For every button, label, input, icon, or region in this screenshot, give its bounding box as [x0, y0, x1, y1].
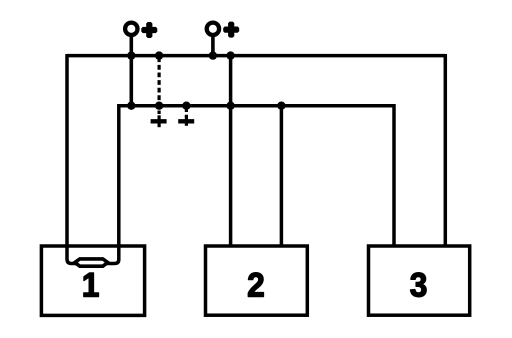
terminal T2: circle: [207, 23, 219, 35]
wire: drop from second bus into unit 1: [108, 104, 119, 264]
terminal T2: plus sign: [223, 22, 239, 38]
ground symbol G2: [178, 116, 194, 126]
wire: positive bus drop to unit 3 right pin: [444, 54, 448, 247]
fusible link inside unit 1: [75, 259, 108, 266]
svg-text:3: 3: [410, 266, 428, 305]
ground symbol G1: [151, 115, 167, 127]
wire: second bus drop to unit 3 left pin: [392, 104, 396, 247]
dashed wire: ground drop from second bus: [185, 107, 188, 117]
wire: second bus (lower horizontal): [119, 104, 394, 108]
wire: second bus drop to unit 2 right pin: [280, 106, 284, 247]
junction: T1 stem on second bus: [127, 102, 135, 110]
junction: unit 2 drop on positive bus: [226, 51, 234, 59]
junction: unit2 left wire crossing second bus: [226, 102, 234, 110]
terminal T1: plus sign: [141, 22, 157, 38]
junction: G2 drop on second bus: [182, 102, 190, 110]
svg-text:1: 1: [82, 266, 100, 305]
junction: ground drop on second bus: [155, 102, 163, 110]
svg-text:2: 2: [247, 266, 265, 305]
wire: terminal 1 stem down to second bus: [130, 36, 134, 106]
junction: T2 on positive bus: [209, 51, 217, 59]
unit 2 box: [206, 246, 308, 315]
wire: positive bus drop to unit 2 left pin: [229, 56, 233, 247]
wire: terminal 2 stem: [211, 36, 215, 56]
unit 1 box: [41, 246, 144, 315]
junction: unit2 right wire on second bus: [277, 102, 285, 110]
junction: ground drop on positive bus: [155, 51, 163, 59]
unit 3 box: [369, 246, 470, 315]
junction: T1 on positive bus: [127, 51, 135, 59]
terminal T1: circle: [125, 23, 137, 35]
dashed wire: ground drop from positive bus: [158, 57, 161, 114]
wire: left drop from positive bus into unit 1: [67, 54, 76, 264]
wire: positive supply bus (top horizontal): [67, 54, 445, 58]
